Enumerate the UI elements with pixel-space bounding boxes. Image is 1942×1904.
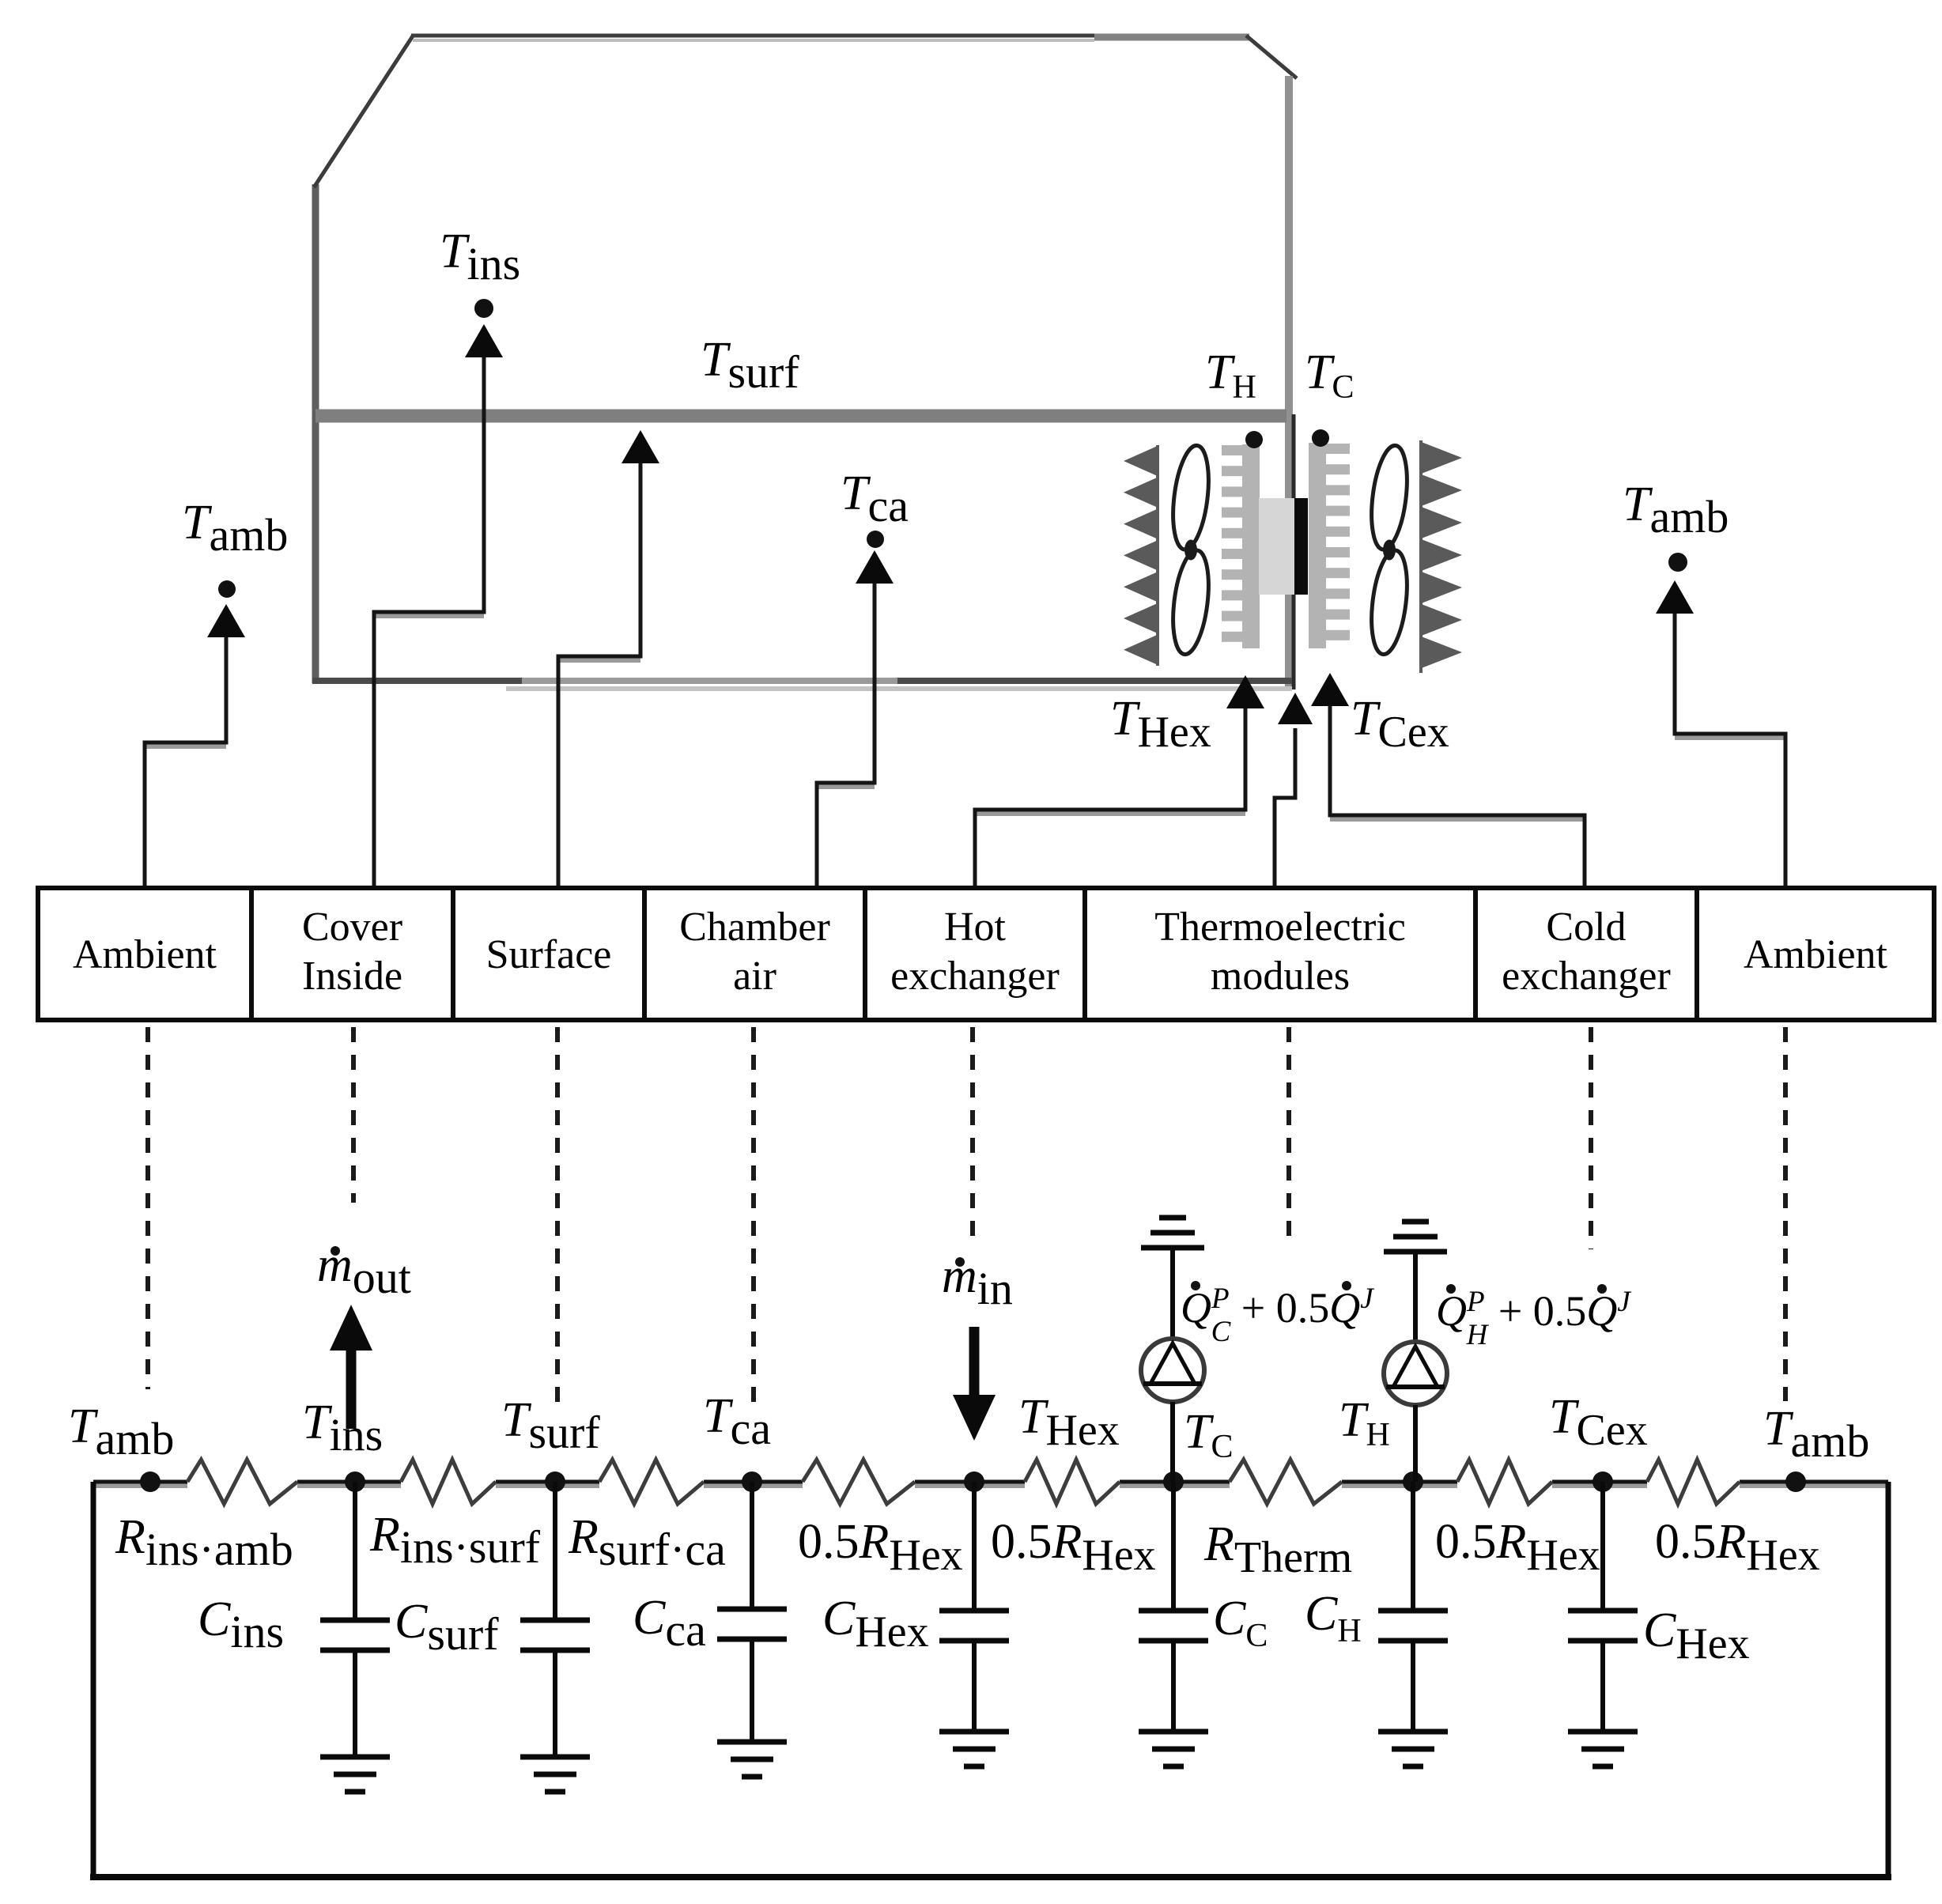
wire: Thermoelectric modules box to module probe xyxy=(1275,728,1295,890)
ground (C_Hex (cold)) xyxy=(1568,1729,1638,1735)
box: Thermoelectric modules xyxy=(1085,888,1475,1020)
arrowhead T_ca xyxy=(856,550,894,584)
arrowhead T_ins xyxy=(465,324,503,357)
chamber left wall xyxy=(312,184,319,683)
wire: node to capacitor C_Hex (cold) xyxy=(1600,1482,1605,1611)
arrowhead thermoelectric modules xyxy=(1278,693,1313,724)
resistor R_Therm xyxy=(1230,1460,1342,1504)
box: Chamber air xyxy=(644,888,865,1020)
wire: capacitor C_ca to ground xyxy=(750,1639,754,1742)
chamber top wall (dark segment) xyxy=(411,34,1094,38)
svg-text:modules: modules xyxy=(1211,954,1350,999)
cold-side fan xyxy=(1366,444,1412,656)
svg-text:Thermoelectric: Thermoelectric xyxy=(1154,905,1406,950)
wire: node to capacitor C_ca xyxy=(750,1482,754,1609)
resistor R_ins-surf xyxy=(401,1460,496,1504)
ground (C_H) xyxy=(1378,1729,1448,1735)
ground (C_surf) xyxy=(520,1755,590,1760)
dashed link line: Hot exchanger xyxy=(970,1027,975,1241)
dashed link line: Cover Inside xyxy=(351,1027,356,1203)
wire: capacitor C_H to ground xyxy=(1411,1641,1415,1732)
arrowhead T_Cex xyxy=(1311,673,1349,706)
capacitor C_ins xyxy=(320,1618,390,1623)
hot-side heat sink xyxy=(1222,444,1260,648)
arrowhead T_Hex xyxy=(1226,675,1264,708)
cold-side airflow triangles xyxy=(1419,440,1462,673)
node T_amb right xyxy=(1785,1471,1806,1492)
box: Ambient (right) xyxy=(1697,888,1934,1020)
ground (C_ca) xyxy=(717,1740,787,1745)
mass flow out arrow (m_out) xyxy=(346,1344,357,1429)
arrowhead T_amb right xyxy=(1656,580,1694,614)
svg-text:exchanger: exchanger xyxy=(890,954,1060,999)
node T_Hex xyxy=(964,1471,984,1492)
wire: capacitor C_ins to ground xyxy=(353,1650,357,1757)
resistor 0.5R_Hex (4) xyxy=(1647,1460,1740,1504)
chamber bottom wall (dark-left segment) xyxy=(312,678,522,684)
dashed link line: Ambient right xyxy=(1783,1027,1788,1401)
heat flow source Q_H xyxy=(1384,1342,1447,1405)
node T_H xyxy=(1403,1471,1423,1492)
mass flow in arrow (m_in) xyxy=(969,1327,980,1398)
chamber top-left slant wall xyxy=(314,35,414,187)
dashed link line: Chamber air xyxy=(751,1027,756,1408)
resistor R_surf-ca xyxy=(599,1460,704,1504)
capacitor C_Hex (hot) xyxy=(939,1608,1009,1614)
wire: Surface box to T_surf probe xyxy=(558,658,640,663)
svg-text:air: air xyxy=(733,954,776,999)
wire: capacitor C_C to ground xyxy=(1171,1641,1176,1732)
arrowhead T_surf xyxy=(622,430,659,463)
resistor 0.5R_Hex (1) xyxy=(803,1460,915,1504)
dashed link line: Thermoelectric modules xyxy=(1286,1027,1291,1237)
resistor 0.5R_Hex (2) xyxy=(1025,1460,1120,1504)
chamber inner surface line (T_surf plane) xyxy=(315,410,1286,423)
svg-text:Cold: Cold xyxy=(1546,905,1626,950)
node T_surf xyxy=(545,1471,565,1492)
box: Hot exchanger xyxy=(865,888,1085,1020)
sensor dot T_amb right xyxy=(1668,553,1687,572)
ground (inverted, Q_C) xyxy=(1141,1245,1204,1251)
node T_Cex xyxy=(1593,1471,1613,1492)
wire: ground to source Q_H xyxy=(1413,1252,1418,1342)
node T_C xyxy=(1163,1471,1184,1492)
svg-text:exchanger: exchanger xyxy=(1502,954,1671,999)
box: Cover Inside xyxy=(251,888,453,1020)
wire: Cover Inside box to T_ins probe xyxy=(374,614,484,618)
wire: capacitor C_surf to ground xyxy=(553,1650,557,1757)
wire: node to capacitor C_Hex (hot) xyxy=(972,1482,977,1611)
svg-text:Chamber: Chamber xyxy=(679,905,830,950)
wire: node to capacitor C_ins xyxy=(353,1482,357,1620)
chamber top-right slant wall xyxy=(1246,36,1297,78)
wire: capacitor C_Hex (hot) to ground xyxy=(972,1641,977,1732)
sensor dot T_ca xyxy=(867,531,884,548)
wire: Ambient box to T_amb probe (right) xyxy=(1675,735,1785,740)
wire: bottom return rail xyxy=(90,1874,1891,1880)
heat flow source Q_C xyxy=(1141,1339,1204,1402)
chamber bottom wall (gray segment) xyxy=(522,678,897,684)
wire: capacitor C_Hex (cold) to ground xyxy=(1600,1641,1605,1732)
capacitor C_surf xyxy=(520,1618,590,1623)
wire: source Q_C to node xyxy=(1170,1402,1175,1482)
wire: node to capacitor C_surf xyxy=(553,1482,557,1620)
svg-text:Inside: Inside xyxy=(302,954,402,999)
wire: node to capacitor C_C xyxy=(1171,1482,1176,1611)
hot-side airflow triangles xyxy=(1124,445,1159,666)
capacitor C_C xyxy=(1139,1608,1208,1614)
svg-text:Ambient: Ambient xyxy=(73,932,217,977)
wire: source Q_H to node xyxy=(1413,1405,1418,1482)
dashed link line: Cold exchanger xyxy=(1589,1027,1593,1249)
wire: left return loop xyxy=(91,1482,96,1877)
svg-text:Ambient: Ambient xyxy=(1744,932,1888,977)
svg-text:Hot: Hot xyxy=(944,905,1007,950)
hot-side fan xyxy=(1168,444,1214,656)
sensor dot T_C xyxy=(1312,429,1329,447)
box: Cold exchanger xyxy=(1475,888,1697,1020)
node T_ca xyxy=(742,1471,762,1492)
wire: ground to source Q_C xyxy=(1170,1248,1175,1339)
ground (C_Hex (hot)) xyxy=(939,1729,1009,1735)
chamber top wall (gray segment) xyxy=(1094,34,1249,41)
wire: node to capacitor C_H xyxy=(1411,1482,1415,1611)
dashed link line: Surface xyxy=(555,1027,560,1408)
wire: Hot exchanger box to T_Hex probe xyxy=(975,811,1245,816)
box: Surface xyxy=(453,888,644,1020)
resistor R_ins-amb xyxy=(187,1460,297,1504)
ground (C_C) xyxy=(1139,1729,1208,1735)
wire: Cold exchanger box to T_Cex probe xyxy=(1330,817,1585,822)
wire: Ambient box to T_amb probe (left) xyxy=(145,744,226,749)
capacitor C_ca xyxy=(717,1607,787,1612)
arrowhead T_amb left xyxy=(207,604,245,637)
cold-side heat sink xyxy=(1309,443,1350,648)
thermoelectric module ceramic block xyxy=(1259,498,1294,595)
chamber bottom wall (dark-right segment) xyxy=(897,678,1292,684)
box: Ambient (left) xyxy=(38,888,251,1020)
svg-text:Cover: Cover xyxy=(302,905,402,950)
wire: right return loop xyxy=(1886,1482,1891,1877)
ground (inverted, Q_H) xyxy=(1384,1249,1447,1255)
sensor dot T_amb left xyxy=(218,580,236,598)
svg-text:Surface: Surface xyxy=(486,932,612,977)
dashed link line: Ambient left xyxy=(145,1027,150,1389)
sensor dot T_ins xyxy=(474,299,493,318)
chamber bottom wall light shadow xyxy=(506,686,1292,691)
main temperature rail wire xyxy=(93,1482,1888,1486)
thermoelectric module black plate xyxy=(1294,498,1308,595)
capacitor C_H xyxy=(1378,1608,1448,1614)
sensor dot T_H xyxy=(1245,431,1263,448)
capacitor C_Hex (cold) xyxy=(1568,1608,1638,1614)
resistor 0.5R_Hex (3) xyxy=(1457,1460,1552,1504)
chamber right wall / TEM divider line xyxy=(1285,76,1293,689)
wire: Chamber air box to T_ca probe xyxy=(817,784,875,789)
node T_ins xyxy=(345,1471,365,1492)
node T_amb left xyxy=(140,1471,161,1492)
ground (C_ins) xyxy=(320,1755,390,1760)
